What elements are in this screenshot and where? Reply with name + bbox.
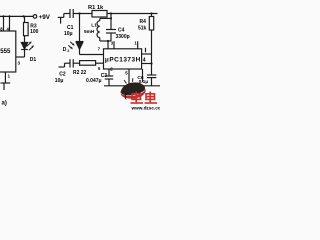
svg-text:5mH: 5mH [84, 29, 95, 35]
junction dot R4 rail [150, 12, 152, 14]
logo char chong2 [145, 92, 158, 104]
capacitor C3 plates [105, 75, 113, 77]
svg-text:3300p: 3300p [116, 34, 130, 40]
terminal +9V circle [33, 15, 37, 19]
svg-text:R2 22: R2 22 [73, 70, 87, 76]
svg-text:a): a) [2, 101, 7, 107]
svg-text:+9V: +9V [39, 14, 51, 21]
svg-text:10μ: 10μ [55, 78, 64, 84]
resistor R3 leads [24, 16, 26, 22]
svg-text:D1: D1 [30, 57, 37, 63]
wire R3 to D1 [24, 36, 26, 43]
svg-text:www.dzsc.com: www.dzsc.com [131, 106, 161, 111]
capacitor C6 plates [147, 74, 156, 76]
wire R4 to pin4 node [151, 30, 153, 75]
pin stub 1 top [137, 41, 139, 49]
svg-text:C2: C2 [59, 71, 66, 77]
logo antennae [124, 78, 133, 83]
svg-text:0.047μ: 0.047μ [86, 78, 102, 84]
junction dot tank bottom [107, 40, 109, 42]
svg-text:(: ( [125, 94, 127, 100]
tank bottom wire [100, 40, 111, 42]
svg-text:3: 3 [18, 61, 21, 66]
IC U1 555 box [0, 31, 16, 72]
junction dot pin4 node [150, 62, 152, 64]
svg-text:555: 555 [0, 48, 11, 55]
resistor R3 body [24, 23, 29, 36]
pin tick right [145, 48, 147, 53]
svg-text:R4: R4 [140, 19, 147, 25]
ground tail a [3, 83, 5, 90]
junction dots rail a [2, 15, 4, 17]
tank top wire [100, 17, 111, 19]
wire rail b right [107, 13, 158, 15]
svg-text:51k: 51k [138, 26, 147, 32]
resistor R4 leads [151, 14, 153, 17]
watermark logo [121, 78, 165, 110]
capacitor C1 plates [69, 9, 71, 18]
svg-text:R1 1k: R1 1k [88, 5, 104, 11]
LED D1 [21, 43, 27, 50]
svg-text:D: D [63, 47, 67, 53]
resistor R4 body [149, 17, 153, 31]
inductor L1 [99, 18, 101, 20]
svg-text:100: 100 [30, 29, 39, 35]
svg-text:C3: C3 [101, 73, 108, 79]
wire D2 to pin7 [80, 54, 104, 56]
junction dot tank top corner [110, 17, 112, 19]
input stub glyph [64, 13, 70, 15]
wire D1 cathode down [24, 50, 26, 58]
ground rail b [104, 85, 160, 87]
wire pin4 tab bottom [142, 63, 152, 65]
photodiode D2 [76, 41, 84, 43]
resistor R2 body [80, 61, 96, 66]
junction dot C1 node [78, 12, 80, 14]
wire C2 to R2 [73, 62, 79, 64]
svg-text:C4: C4 [118, 28, 125, 34]
wire pin4 tab top [142, 53, 152, 55]
photodiode D2 arrows [70, 42, 73, 45]
pin2 stub down [108, 69, 110, 76]
logo char chong1 [131, 92, 144, 104]
pin stub right bottom [142, 69, 144, 82]
wire R2 to pin6 [96, 62, 104, 64]
wire 555 pin1 down [4, 72, 6, 83]
svg-text:L1: L1 [91, 23, 97, 29]
ground bar a [1, 82, 11, 84]
node stub pin8 [3, 16, 5, 31]
tank stub from rail [110, 14, 112, 19]
capacitor C2 foot glyph [59, 66, 65, 68]
logo swoosh [121, 82, 146, 95]
pin5 stub down [128, 69, 130, 86]
capacitor C2 plates [69, 59, 71, 67]
svg-text:10μ: 10μ [64, 31, 73, 37]
svg-text:4: 4 [143, 57, 146, 63]
wire tank to IC top [107, 41, 109, 49]
photodiode D2 branch wire [79, 14, 81, 42]
resistor R1 body [92, 11, 107, 18]
IC U2 uPC1373H box [104, 49, 142, 69]
node stub pin4 [9, 16, 11, 31]
junction dot tank stub [110, 12, 112, 14]
svg-text:μPC1373H: μPC1373H [105, 56, 141, 63]
wire top rail b [73, 13, 92, 15]
LED D1 arrows [27, 43, 31, 47]
pin stub 3 top [113, 41, 115, 49]
svg-text:2: 2 [67, 49, 69, 53]
capacitor C4 [110, 18, 112, 29]
wire pin3 to D1 [16, 56, 25, 58]
wire top rail a [0, 15, 33, 17]
